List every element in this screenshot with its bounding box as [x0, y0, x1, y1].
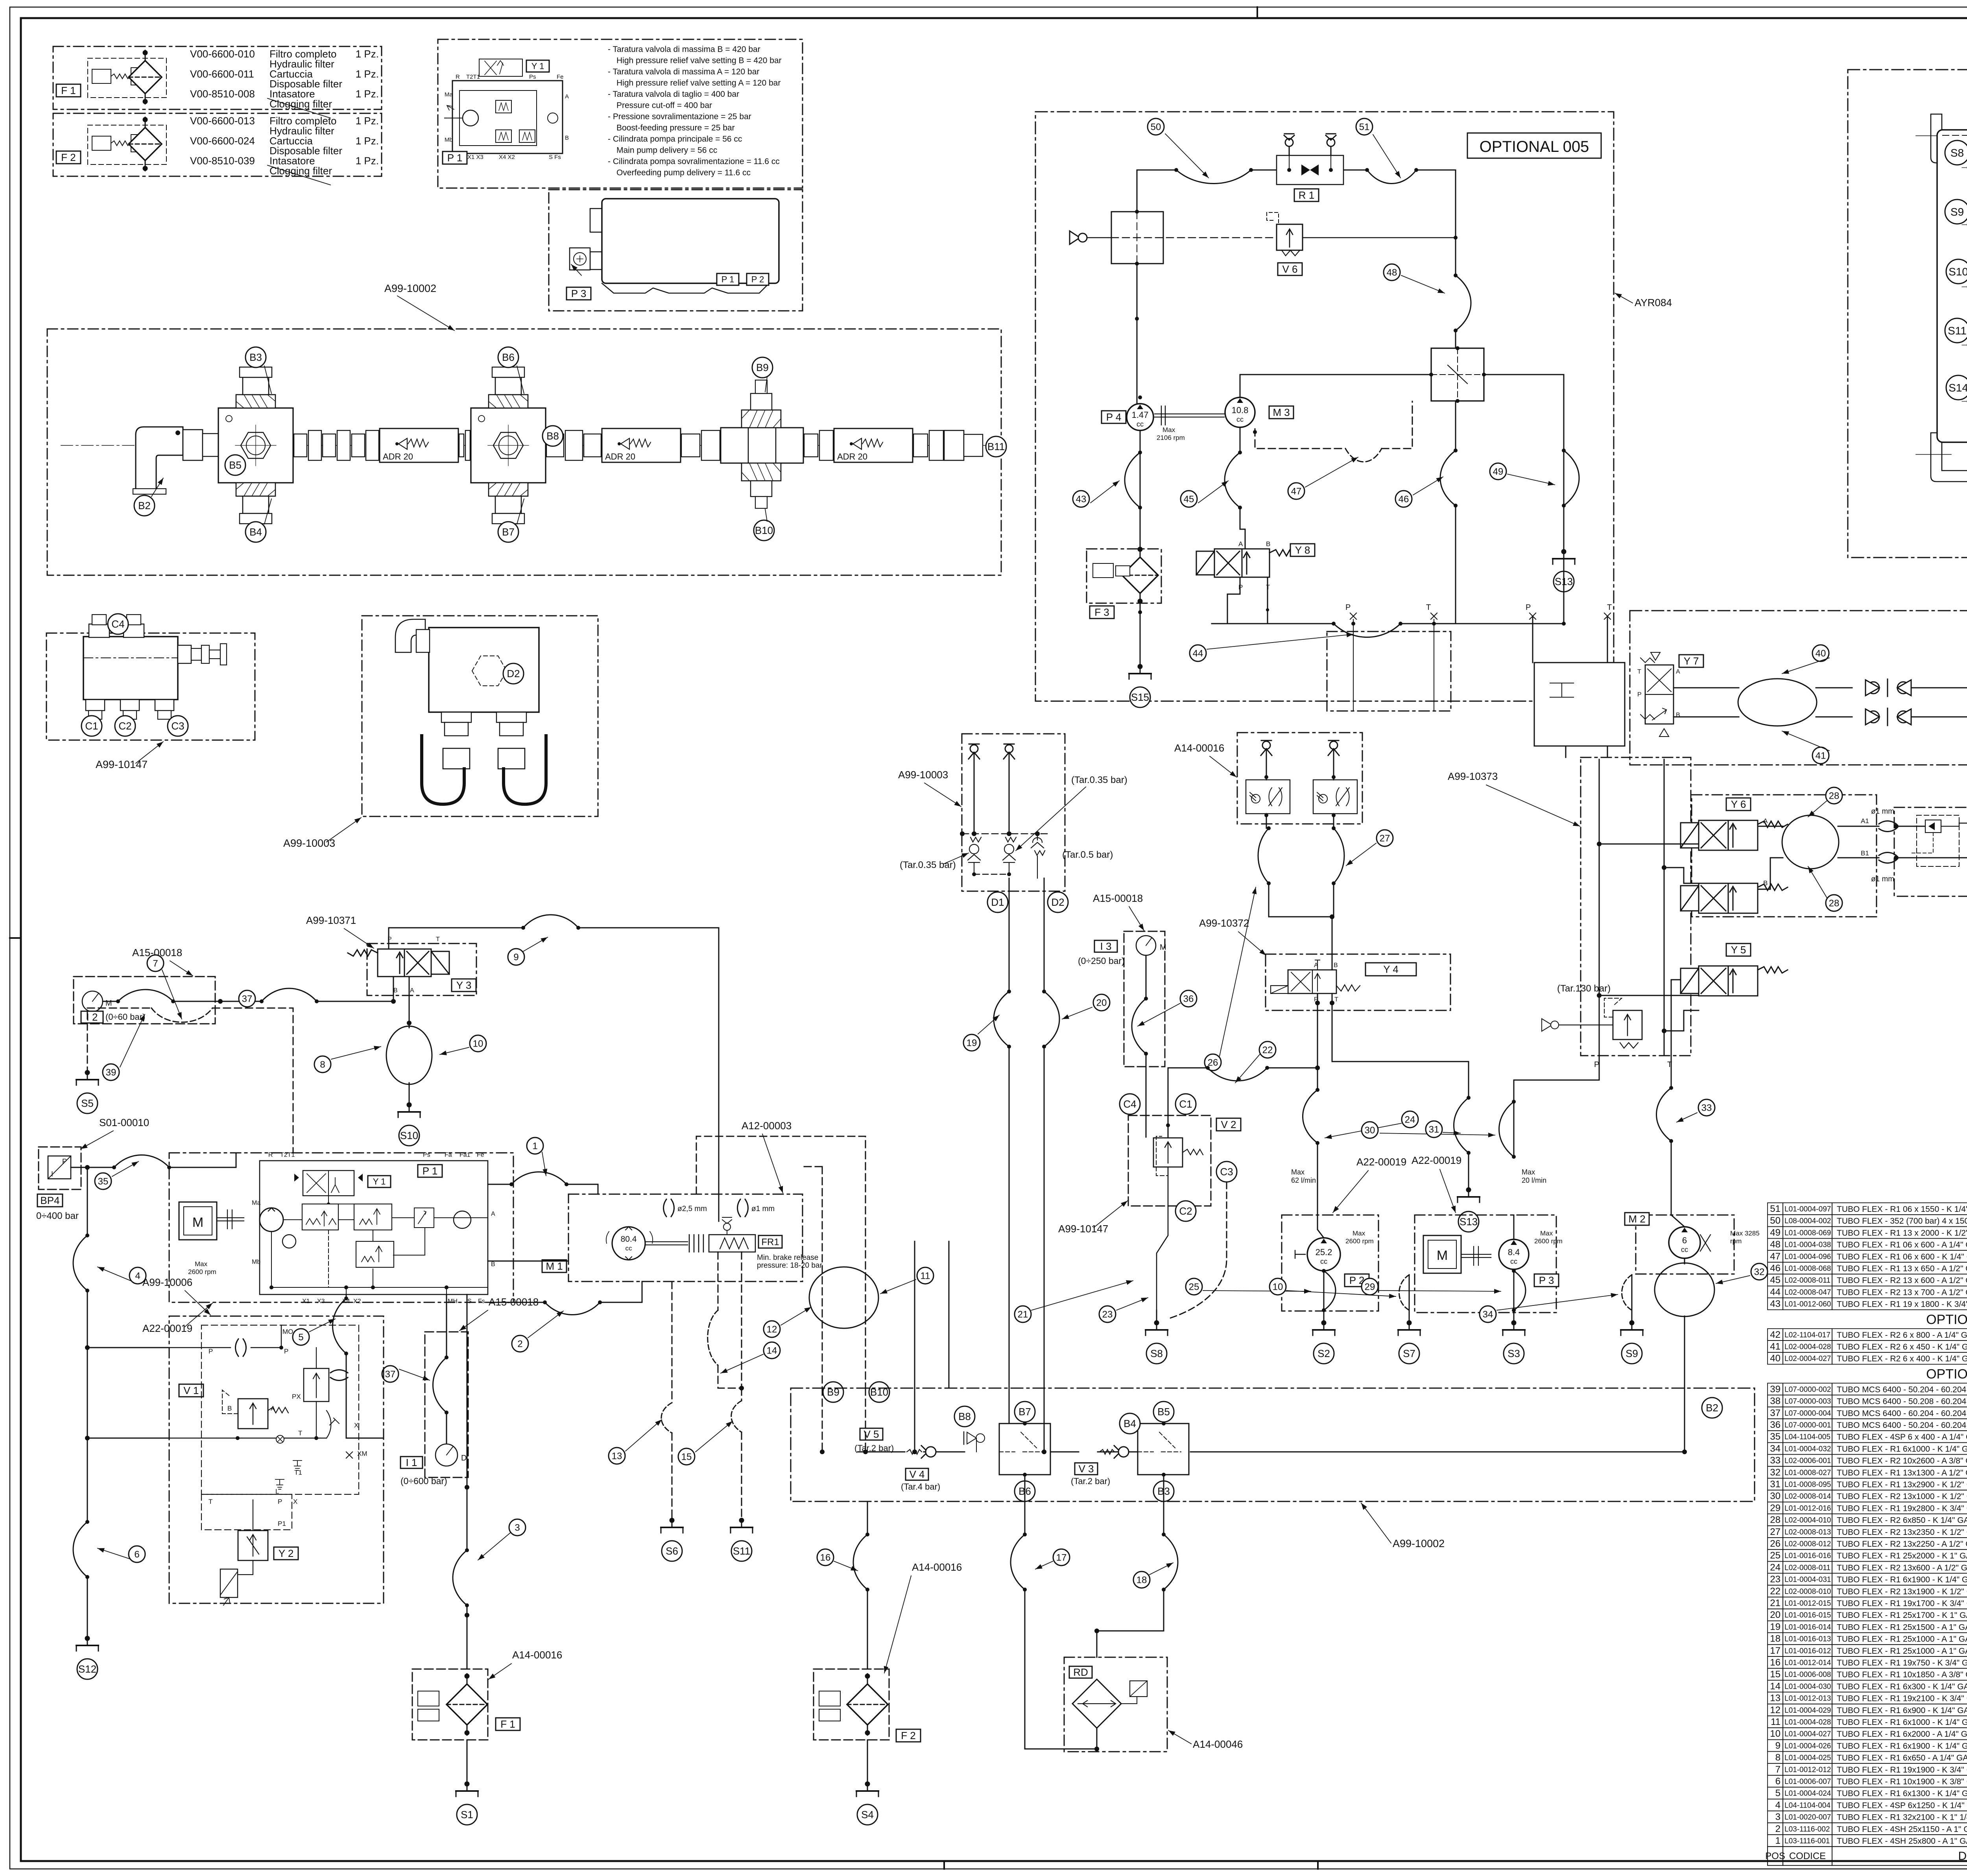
wire P3 down: [1513, 1271, 1515, 1310]
svg-text:47: 47: [1291, 486, 1302, 497]
node 48: [1384, 264, 1400, 281]
svg-text:P 2: P 2: [751, 275, 764, 284]
svg-text:TUBO FLEX - R2 13x1000 - K 1/2: TUBO FLEX - R2 13x1000 - K 1/2" GAS - K …: [1837, 1492, 1967, 1501]
label P 3: [1534, 1274, 1559, 1287]
node S11: [731, 1541, 752, 1561]
svg-text:A1: A1: [1861, 817, 1869, 825]
filter F 1 bypass valve: [88, 58, 166, 98]
node 30: [1362, 1122, 1378, 1138]
svg-text:T: T: [1667, 1060, 1672, 1069]
svg-text:V 4: V 4: [909, 1468, 924, 1480]
node 51: [1356, 118, 1373, 135]
svg-text:14: 14: [1770, 1681, 1781, 1691]
label F 1: [496, 1718, 520, 1730]
svg-text:S13: S13: [1460, 1216, 1478, 1228]
shut-off valve: [1866, 679, 1911, 696]
wire P2 down: [1323, 1271, 1325, 1310]
svg-text:TUBO FLEX - R1 6x300 - K 1/4": TUBO FLEX - R1 6x300 - K 1/4" GAS - K 1/…: [1837, 1682, 1967, 1691]
svg-text:Max: Max: [1162, 426, 1175, 434]
label P 1: [418, 1165, 442, 1177]
svg-text:B: B: [1334, 962, 1338, 969]
svg-text:S8: S8: [1950, 147, 1964, 159]
svg-text:L01-0004-031: L01-0004-031: [1784, 1576, 1831, 1584]
C-block bottom ports: [86, 700, 105, 711]
node C3: [1216, 1161, 1237, 1182]
label V 5: [860, 1428, 883, 1440]
svg-text:Y 2: Y 2: [279, 1547, 294, 1559]
Y6 hoses to plug cylinder A10-00003: [1838, 826, 1879, 858]
drain dashed M3: [1255, 401, 1412, 449]
svg-text:Fa1: Fa1: [459, 1152, 471, 1158]
svg-text:L08-0004-002: L08-0004-002: [1784, 1217, 1831, 1225]
hose row 26: [1768, 1538, 1967, 1549]
svg-text:B: B: [491, 1261, 495, 1268]
node S4: [857, 1804, 878, 1825]
svg-text:L01-0012-012: L01-0012-012: [1784, 1766, 1831, 1774]
orifice: [236, 1339, 246, 1356]
node S1: [457, 1804, 477, 1825]
svg-text:5: 5: [298, 1332, 303, 1342]
svg-text:A12-00003: A12-00003: [742, 1120, 792, 1132]
node 28: [1826, 895, 1842, 911]
hose couplers: [804, 434, 818, 457]
svg-text:30: 30: [1365, 1125, 1375, 1136]
label Y 5: [1726, 944, 1751, 956]
tank symbol: [398, 1103, 420, 1117]
svg-text:26: 26: [1770, 1538, 1781, 1549]
svg-text:TUBO FLEX - R1 19x1900 - K 3/4: TUBO FLEX - R1 19x1900 - K 3/4" GAS - K …: [1837, 1765, 1967, 1774]
svg-text:Main pump delivery = 56 cc: Main pump delivery = 56 cc: [616, 146, 717, 155]
svg-text:19: 19: [967, 1038, 977, 1048]
svg-text:2: 2: [1775, 1824, 1781, 1834]
svg-text:50: 50: [1770, 1215, 1781, 1226]
svg-text:Ps: Ps: [529, 74, 536, 80]
node B8: [542, 426, 563, 446]
svg-text:V 3: V 3: [1078, 1463, 1094, 1475]
svg-text:C4: C4: [1123, 1098, 1136, 1110]
svg-text:A14-00046: A14-00046: [1193, 1738, 1243, 1750]
svg-text:S10: S10: [1949, 266, 1967, 278]
node B10: [869, 1382, 889, 1402]
svg-text:22: 22: [1262, 1045, 1273, 1055]
pump/motor circle: [1669, 1227, 1700, 1258]
svg-text:TUBO FLEX - R1 6x1300 - K 1/4": TUBO FLEX - R1 6x1300 - K 1/4" GAS - K 1…: [1837, 1789, 1967, 1798]
node 6: [129, 1546, 145, 1562]
svg-text:28: 28: [1770, 1515, 1781, 1525]
svg-text:11: 11: [1771, 1717, 1781, 1727]
svg-text:TUBO FLEX - R1 19x2100 - K 3/4: TUBO FLEX - R1 19x2100 - K 3/4" GAS - K …: [1837, 1694, 1967, 1703]
svg-text:A22-00019: A22-00019: [142, 1322, 192, 1334]
node D1: [987, 892, 1008, 912]
label BP4: [37, 1194, 63, 1207]
svg-text:29: 29: [1365, 1281, 1375, 1292]
hose row 41: [1768, 1341, 1967, 1352]
label I 1: [400, 1457, 423, 1468]
oval hose 11/12: [809, 1267, 810, 1269]
hose row 23: [1768, 1573, 1967, 1585]
svg-text:F 1: F 1: [61, 85, 76, 96]
svg-text:Clogging filter: Clogging filter: [269, 165, 332, 177]
svg-text:Fe: Fe: [557, 74, 564, 80]
solenoid valve: [1681, 820, 1788, 850]
svg-text:L02-0004-028: L02-0004-028: [1784, 1343, 1831, 1351]
svg-text:25: 25: [1189, 1281, 1199, 1292]
svg-text:6: 6: [1682, 1235, 1687, 1245]
node B2: [134, 495, 155, 516]
svg-text:L01-0004-038: L01-0004-038: [1784, 1241, 1831, 1249]
node 8: [314, 1056, 331, 1073]
svg-text:S14: S14: [1949, 382, 1967, 394]
svg-text:35: 35: [1770, 1431, 1781, 1442]
dashed C3 drain: [1168, 1182, 1227, 1319]
node 9: [508, 949, 524, 965]
filter element: [129, 50, 162, 104]
svg-text:Clogging filter: Clogging filter: [269, 98, 332, 110]
pump/motor circle: [1499, 1239, 1529, 1269]
svg-text:(Tar.0.35 bar): (Tar.0.35 bar): [900, 860, 956, 870]
dashed A-B loop to B9 B10: [696, 1136, 865, 1388]
node 29: [1362, 1278, 1378, 1295]
pump P.1 manifold block: [452, 81, 563, 153]
node 16: [817, 1549, 834, 1566]
svg-text:B4: B4: [1124, 1418, 1136, 1429]
filter F 1 assembly: [53, 46, 382, 109]
leader F2: [268, 165, 330, 185]
svg-text:8.4: 8.4: [1508, 1247, 1520, 1257]
svg-text:P: P: [1238, 583, 1243, 591]
label I 3: [1094, 940, 1117, 952]
hose row 45: [1768, 1274, 1967, 1286]
pressure transducer BP4: [39, 1147, 81, 1189]
node 1: [527, 1137, 543, 1154]
P1 gauge: [454, 1211, 471, 1228]
wire C2 down to tank S8 row: [1157, 1167, 1168, 1310]
node 17: [1053, 1549, 1070, 1566]
dashed S5 line and balloon 7: [87, 1008, 293, 1153]
svg-text:T2T1: T2T1: [280, 1152, 295, 1158]
svg-text:D2: D2: [507, 668, 520, 679]
svg-text:L07-0000-003: L07-0000-003: [1784, 1398, 1831, 1406]
svg-text:S Fs: S Fs: [549, 154, 561, 161]
hose row 40: [1768, 1352, 1967, 1364]
node B5: [225, 455, 245, 475]
pull hose oval 8/10: [409, 1023, 410, 1106]
svg-text:P 1: P 1: [423, 1165, 438, 1177]
svg-text:14: 14: [767, 1345, 777, 1356]
svg-text:cc: cc: [626, 1245, 633, 1252]
node 24: [1402, 1111, 1418, 1128]
main return line: [858, 1336, 1685, 1452]
svg-text:Y 4: Y 4: [1383, 964, 1399, 975]
svg-text:62 l/min: 62 l/min: [1291, 1176, 1316, 1184]
svg-text:33: 33: [1701, 1102, 1712, 1113]
wires A14-00016 down: [1269, 883, 1334, 917]
node B2: [1702, 1398, 1722, 1418]
svg-text:L01-0016-016: L01-0016-016: [1784, 1552, 1831, 1560]
svg-text:F 1: F 1: [500, 1718, 515, 1730]
wire V4 to radiator loop: [1025, 1475, 1097, 1749]
breather check: [969, 744, 980, 763]
svg-text:18: 18: [1770, 1634, 1781, 1644]
svg-text:39: 39: [106, 1067, 116, 1078]
node C2: [1175, 1201, 1196, 1221]
svg-text:1 Pz.: 1 Pz.: [356, 135, 379, 147]
solenoid valve: [348, 949, 449, 977]
svg-text:F 2: F 2: [901, 1730, 916, 1741]
svg-text:MH: MH: [448, 1298, 458, 1305]
svg-text:TUBO MCS 6400 - 50.204 - 60.20: TUBO MCS 6400 - 50.204 - 60.204 - 500: [1837, 1421, 1967, 1430]
svg-text:P: P: [209, 1348, 213, 1355]
svg-text:TUBO FLEX - R1 6x1000 - K 1/4": TUBO FLEX - R1 6x1000 - K 1/4" GAS - K 1…: [1837, 1718, 1967, 1727]
block V4 square: [999, 1424, 1050, 1475]
hose row 1: [1768, 1835, 1967, 1846]
svg-text:P: P: [1526, 603, 1531, 612]
svg-text:28: 28: [1829, 898, 1840, 908]
node 31: [1426, 1121, 1442, 1137]
svg-text:A99-10003: A99-10003: [283, 837, 335, 849]
node B5: [1153, 1401, 1174, 1422]
tank mounting brackets: [1931, 114, 1967, 163]
svg-text:V 1: V 1: [183, 1385, 199, 1396]
svg-text:(0÷600 bar): (0÷600 bar): [400, 1476, 447, 1486]
wire main left vertical to S12: [87, 1167, 88, 1640]
shut-off valve: [1866, 708, 1911, 726]
svg-text:37: 37: [242, 993, 253, 1004]
tank symbol: [1398, 1321, 1420, 1335]
svg-text:P: P: [1345, 603, 1351, 612]
svg-text:10.8: 10.8: [1232, 405, 1249, 415]
svg-text:L02-0008-047: L02-0008-047: [1784, 1288, 1831, 1296]
node S5: [77, 1093, 98, 1113]
node 3: [509, 1519, 526, 1536]
svg-text:A: A: [1763, 817, 1768, 825]
svg-text:18: 18: [1137, 1575, 1147, 1585]
label F 3: [1090, 606, 1114, 619]
svg-text:P1: P1: [278, 1520, 286, 1527]
wire B3 to RD: [1097, 1475, 1164, 1657]
svg-text:(Tar.0.35 bar): (Tar.0.35 bar): [1071, 775, 1127, 785]
svg-text:40: 40: [1770, 1353, 1781, 1364]
svg-text:TUBO FLEX - R1 32x2100 - K 1": TUBO FLEX - R1 32x2100 - K 1" 1/4 GAS - …: [1837, 1813, 1967, 1822]
svg-text:B5: B5: [1157, 1406, 1170, 1418]
gauge I2 assembly: [74, 977, 215, 1024]
label R 1: [1294, 189, 1319, 201]
svg-text:31: 31: [1429, 1124, 1439, 1135]
svg-text:Overfeeding pump delivery = 11: Overfeeding pump delivery = 11.6 cc: [616, 168, 751, 177]
svg-text:Y 6: Y 6: [1731, 798, 1746, 810]
svg-text:PX: PX: [292, 1393, 301, 1400]
node B8: [954, 1406, 975, 1427]
svg-text:V 6: V 6: [1282, 263, 1297, 275]
D-block hex: [472, 656, 507, 686]
svg-text:12: 12: [767, 1324, 777, 1335]
tank symbol: [1503, 1321, 1525, 1335]
svg-text:(Tar.130 bar): (Tar.130 bar): [1557, 983, 1611, 994]
svg-text:L01-0004-026: L01-0004-026: [1784, 1742, 1831, 1750]
node B3: [245, 347, 266, 367]
bleed valve B8: [967, 1432, 976, 1444]
tank symbol: [1458, 1188, 1480, 1202]
svg-text:29: 29: [1770, 1503, 1781, 1513]
svg-text:6: 6: [1775, 1776, 1781, 1787]
svg-text:A: A: [1676, 668, 1680, 675]
C-block side fitting: [178, 645, 191, 663]
svg-text:TUBO FLEX - R1 19x2800 - K 3/4: TUBO FLEX - R1 19x2800 - K 3/4" GAS - K4…: [1837, 1504, 1967, 1513]
svg-text:D: D: [461, 1454, 467, 1462]
svg-text:L01-0004-097: L01-0004-097: [1784, 1205, 1831, 1213]
relief valves inside P.1: [496, 100, 511, 113]
breather check: [1328, 740, 1339, 759]
hose row 28: [1768, 1514, 1967, 1526]
label Y 1: [526, 60, 549, 72]
svg-text:OPTIONAL 005: OPTIONAL 005: [1926, 1312, 1967, 1327]
node 14: [764, 1342, 780, 1359]
wire M2 feed: [1671, 980, 1692, 1227]
svg-text:L01-0008-027: L01-0008-027: [1784, 1469, 1831, 1477]
check V3 + block: [1100, 1449, 1115, 1454]
svg-text:L02-0004-027: L02-0004-027: [1784, 1355, 1831, 1363]
wire M2 down to B2: [1684, 1258, 1685, 1336]
hose row 19: [1768, 1621, 1967, 1632]
wire F1 to S1: [467, 1740, 468, 1786]
svg-text:cc: cc: [1137, 420, 1144, 428]
svg-text:1 Pz.: 1 Pz.: [356, 48, 379, 60]
brake FR1: [645, 1241, 688, 1242]
node 19: [963, 1034, 980, 1051]
node B10: [754, 520, 774, 541]
svg-text:27: 27: [1770, 1527, 1781, 1537]
svg-text:X: X: [293, 1498, 297, 1505]
svg-text:5: 5: [1775, 1788, 1781, 1798]
wire Y4 T to S13: [1332, 993, 1469, 1191]
svg-text:28: 28: [1829, 790, 1840, 801]
svg-text:A14-00016: A14-00016: [912, 1561, 962, 1573]
svg-text:36: 36: [1770, 1420, 1781, 1430]
svg-text:S2: S2: [1317, 1348, 1330, 1359]
svg-text:17: 17: [1056, 1552, 1067, 1563]
svg-text:TUBO FLEX - R1 06 x 600 - K 1/: TUBO FLEX - R1 06 x 600 - K 1/4" GAS - K…: [1837, 1252, 1967, 1261]
svg-text:L01-0008-095: L01-0008-095: [1784, 1481, 1831, 1489]
motor M and pump P3 assembly: [1415, 1215, 1556, 1313]
svg-text:47: 47: [1770, 1251, 1781, 1262]
pump/motor circle: [1225, 397, 1255, 427]
svg-text:22: 22: [1770, 1586, 1781, 1597]
manifold return boundary A99-10002: [791, 1388, 1755, 1501]
svg-text:TUBO FLEX - R2 6x850 - K 1/4": TUBO FLEX - R2 6x850 - K 1/4" GAS - K45 …: [1837, 1516, 1967, 1525]
wire P1-A to M1: [488, 1184, 598, 1194]
svg-text:A22-00019: A22-00019: [1356, 1156, 1406, 1168]
svg-text:3: 3: [515, 1522, 520, 1533]
wire D1 down: [1009, 878, 1010, 1409]
svg-text:L01-0004-096: L01-0004-096: [1784, 1253, 1831, 1261]
svg-text:TUBO FLEX - R2 10x2600 - A 3/8: TUBO FLEX - R2 10x2600 - A 3/8" GAS - K …: [1837, 1457, 1967, 1466]
svg-text:25.2: 25.2: [1316, 1247, 1332, 1257]
hose row 21: [1768, 1597, 1967, 1609]
wire right drop: [1455, 238, 1456, 348]
svg-text:19: 19: [1770, 1621, 1781, 1632]
pump P2 assembly: [1282, 1215, 1378, 1311]
tank boundary A14-00016: [1848, 70, 1967, 558]
hose row 50: [1768, 1215, 1967, 1226]
filter F2 assembly: [814, 1669, 889, 1740]
svg-text:A: A: [410, 987, 414, 994]
svg-text:TUBO FLEX - R1 6x650 - A 1/4": TUBO FLEX - R1 6x650 - A 1/4" GAS - K 1/…: [1837, 1754, 1967, 1763]
svg-text:T: T: [298, 1429, 302, 1437]
svg-text:7: 7: [1775, 1764, 1781, 1775]
svg-text:P 3: P 3: [571, 288, 587, 299]
svg-text:B4: B4: [249, 526, 262, 538]
wire F2 to S4: [867, 1740, 868, 1786]
optional 071 boundary: [1630, 611, 1967, 765]
svg-text:Ma: Ma: [252, 1200, 260, 1206]
node 15: [678, 1448, 695, 1465]
svg-text:- Pressione sovralimentazione: - Pressione sovralimentazione = 25 bar: [608, 112, 751, 121]
svg-text:L02-0008-013: L02-0008-013: [1784, 1528, 1831, 1536]
svg-text:T: T: [1426, 603, 1431, 612]
hose row 3: [1768, 1811, 1967, 1823]
tank symbol: [1129, 665, 1151, 679]
fold marks: [1257, 7, 1258, 18]
svg-text:25: 25: [1770, 1550, 1781, 1561]
svg-text:36: 36: [1183, 993, 1194, 1004]
svg-text:X1: X1: [302, 1298, 310, 1305]
svg-text:TUBO FLEX - R1 13 x 650 - A 1/: TUBO FLEX - R1 13 x 650 - A 1/2" GAS - K…: [1837, 1264, 1967, 1273]
svg-text:33: 33: [1770, 1455, 1781, 1466]
svg-text:S10: S10: [400, 1130, 418, 1141]
svg-text:S5: S5: [81, 1097, 94, 1109]
tank S15 line: [1140, 624, 1141, 669]
svg-text:T: T: [1334, 996, 1338, 1003]
wire compressor loop top: [1137, 170, 1176, 275]
svg-text:Max: Max: [195, 1260, 208, 1268]
label Y 6: [1726, 798, 1751, 811]
svg-text:10: 10: [1273, 1281, 1283, 1292]
svg-text:M: M: [105, 999, 112, 1008]
svg-text:A99-10002: A99-10002: [1393, 1538, 1445, 1549]
svg-text:26: 26: [1208, 1057, 1218, 1068]
tank S8 drop: [1156, 1310, 1157, 1325]
node S8: [1945, 140, 1967, 165]
svg-text:A15-00018: A15-00018: [1093, 892, 1143, 904]
label F 2: [56, 151, 81, 164]
node 25: [1186, 1278, 1202, 1295]
svg-text:TUBO FLEX - R1 19x1700 - K 3/4: TUBO FLEX - R1 19x1700 - K 3/4" GAS - K4…: [1837, 1599, 1967, 1608]
svg-text:C1: C1: [1179, 1098, 1192, 1110]
block A99-10003 schematic: [962, 734, 1065, 891]
svg-text:23: 23: [1102, 1309, 1113, 1320]
node S11: [1945, 318, 1967, 343]
svg-text:46: 46: [1770, 1263, 1781, 1274]
svg-text:P 1: P 1: [447, 152, 463, 164]
svg-text:P: P: [284, 1348, 288, 1355]
svg-text:MO: MO: [282, 1328, 293, 1335]
svg-text:20: 20: [1770, 1610, 1781, 1620]
wire I3 junction line 22: [1168, 1067, 1317, 1069]
svg-text:TUBO FLEX - R2 6 x 800 - A 1/4: TUBO FLEX - R2 6 x 800 - A 1/4" GAS - K …: [1837, 1331, 1967, 1340]
svg-text:S7: S7: [1403, 1348, 1415, 1359]
tank symbol: [76, 1636, 98, 1651]
manifold A99-10002 box: [47, 329, 1001, 575]
svg-text:P 4: P 4: [1106, 411, 1122, 423]
wires in A99-10373: [1599, 759, 1664, 1056]
svg-text:P: P: [1637, 691, 1642, 698]
svg-text:A: A: [1238, 540, 1243, 548]
filter F 2 bypass valve: [88, 125, 166, 164]
svg-text:L01-0008-068: L01-0008-068: [1784, 1265, 1831, 1273]
hose row 37: [1768, 1407, 1967, 1419]
svg-text:TUBO FLEX - 4SH 25x1150 - A 1": TUBO FLEX - 4SH 25x1150 - A 1" GAS - K 1…: [1837, 1825, 1967, 1834]
node C1: [1175, 1094, 1196, 1114]
